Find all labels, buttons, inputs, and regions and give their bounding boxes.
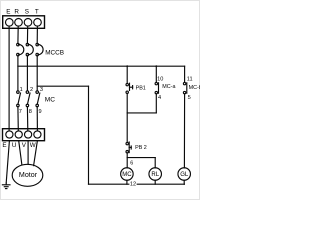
svg-text:2: 2	[30, 87, 33, 93]
svg-text:MC-a: MC-a	[162, 84, 175, 90]
svg-text:Motor: Motor	[19, 171, 38, 179]
svg-text:W: W	[30, 142, 36, 149]
svg-text:6: 6	[130, 161, 133, 167]
svg-text:U: U	[12, 142, 17, 149]
svg-text:PB1: PB1	[136, 85, 146, 91]
svg-text:3: 3	[40, 87, 43, 93]
svg-text:R: R	[14, 9, 19, 16]
svg-text:10: 10	[157, 77, 163, 83]
svg-text:MC: MC	[122, 172, 132, 178]
svg-text:12: 12	[130, 182, 136, 188]
svg-text:5: 5	[188, 95, 191, 101]
svg-text:RL: RL	[151, 172, 159, 178]
svg-text:1: 1	[20, 87, 23, 93]
svg-text:PB 2: PB 2	[135, 145, 147, 151]
svg-text:11: 11	[187, 77, 193, 83]
svg-text:MC-b: MC-b	[189, 85, 200, 91]
svg-text:E: E	[2, 142, 6, 149]
svg-text:E: E	[6, 9, 10, 16]
svg-text:7: 7	[19, 109, 22, 115]
svg-text:MC: MC	[45, 97, 55, 104]
svg-text:MCCB: MCCB	[45, 49, 64, 56]
svg-text:8: 8	[29, 109, 32, 115]
svg-text:GL: GL	[180, 172, 189, 178]
svg-text:9: 9	[39, 109, 42, 115]
svg-text:T: T	[35, 9, 39, 16]
svg-text:S: S	[25, 9, 29, 16]
svg-text:4: 4	[158, 95, 161, 101]
